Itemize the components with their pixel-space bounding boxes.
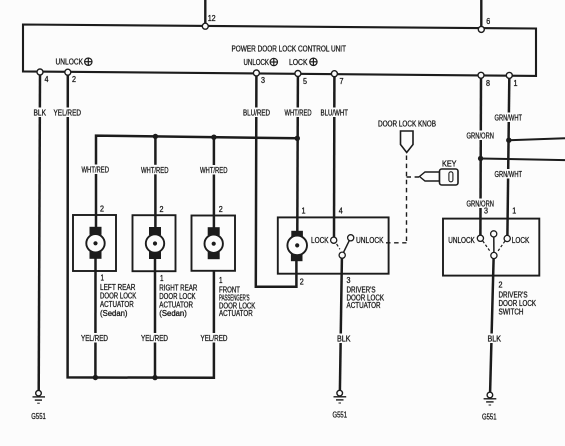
- svg-text:5: 5: [303, 77, 308, 86]
- svg-text:BLK: BLK: [337, 335, 351, 344]
- svg-text:BLU/WHT: BLU/WHT: [321, 109, 349, 118]
- svg-text:BLU/RED: BLU/RED: [243, 109, 270, 118]
- svg-text:LEFT REAR: LEFT REAR: [100, 283, 136, 292]
- svg-text:2: 2: [72, 75, 76, 84]
- svg-text:(Sedan): (Sedan): [100, 309, 128, 318]
- svg-text:G551: G551: [333, 411, 348, 420]
- svg-text:LOCK: LOCK: [311, 236, 329, 245]
- svg-text:UNLOCK: UNLOCK: [244, 58, 270, 67]
- svg-text:BLK: BLK: [34, 109, 47, 118]
- svg-text:(Sedan): (Sedan): [159, 309, 187, 318]
- svg-text:7: 7: [340, 77, 344, 86]
- svg-text:1: 1: [101, 274, 105, 283]
- svg-text:2: 2: [499, 281, 503, 290]
- svg-text:3: 3: [261, 76, 265, 85]
- svg-text:ACTUATOR: ACTUATOR: [219, 309, 253, 318]
- svg-text:1: 1: [514, 79, 518, 88]
- svg-text:1: 1: [512, 207, 516, 216]
- svg-text:3: 3: [347, 276, 351, 285]
- svg-text:WHT/RED: WHT/RED: [82, 166, 110, 175]
- svg-text:G551: G551: [31, 412, 46, 421]
- svg-text:1: 1: [219, 276, 223, 285]
- svg-text:1: 1: [160, 274, 164, 283]
- svg-text:8: 8: [486, 79, 490, 88]
- svg-text:WHT/RED: WHT/RED: [200, 166, 228, 175]
- svg-text:DOOR LOCK KNOB: DOOR LOCK KNOB: [378, 120, 436, 129]
- svg-text:YEL/RED: YEL/RED: [81, 334, 108, 343]
- svg-text:ACTUATOR: ACTUATOR: [347, 301, 381, 310]
- svg-text:YEL/RED: YEL/RED: [54, 109, 82, 118]
- svg-text:LOCK: LOCK: [512, 236, 530, 245]
- svg-text:KEY: KEY: [442, 160, 457, 169]
- svg-text:SWITCH: SWITCH: [499, 308, 524, 317]
- svg-text:2: 2: [300, 278, 304, 287]
- svg-text:2: 2: [160, 205, 164, 214]
- svg-text:WHT/RED: WHT/RED: [141, 166, 169, 175]
- svg-text:YEL/RED: YEL/RED: [141, 334, 168, 343]
- svg-text:GRN/WHT: GRN/WHT: [495, 170, 523, 179]
- svg-text:12: 12: [208, 14, 216, 23]
- svg-text:POWER DOOR LOCK CONTROL UNIT: POWER DOOR LOCK CONTROL UNIT: [232, 45, 347, 54]
- svg-text:G551: G551: [482, 413, 497, 422]
- svg-text:GRN/WHT: GRN/WHT: [495, 114, 523, 123]
- svg-text:4: 4: [339, 207, 344, 216]
- svg-text:2: 2: [100, 205, 104, 214]
- svg-text:LOCK: LOCK: [289, 58, 308, 67]
- svg-text:UNLOCK: UNLOCK: [56, 58, 84, 67]
- svg-text:BLK: BLK: [488, 335, 502, 344]
- svg-text:2: 2: [219, 205, 223, 214]
- svg-text:WHT/RED: WHT/RED: [285, 109, 312, 118]
- svg-text:RIGHT REAR: RIGHT REAR: [159, 283, 197, 292]
- svg-text:GRN/ORN: GRN/ORN: [467, 200, 495, 209]
- svg-text:GRN/ORN: GRN/ORN: [467, 132, 495, 141]
- svg-text:6: 6: [486, 17, 490, 26]
- svg-text:4: 4: [45, 75, 50, 84]
- svg-text:UNLOCK: UNLOCK: [448, 236, 475, 245]
- svg-text:UNLOCK: UNLOCK: [356, 236, 384, 245]
- svg-text:1: 1: [302, 207, 306, 216]
- svg-text:YEL/RED: YEL/RED: [201, 334, 228, 343]
- svg-text:3: 3: [484, 207, 488, 216]
